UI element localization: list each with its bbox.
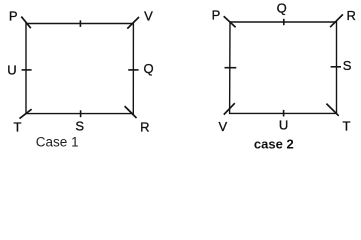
sq2 tick bottom (U) bbox=[283, 110, 285, 117]
svg-text:T: T bbox=[343, 119, 351, 134]
svg-text:P: P bbox=[9, 8, 18, 23]
sq1 corner mark V (top-right) bbox=[127, 17, 139, 29]
svg-text:R: R bbox=[347, 8, 356, 23]
sq2 corner mark V (bottom-left) bbox=[224, 103, 235, 114]
svg-text:U: U bbox=[279, 118, 288, 133]
sq1 corner mark P (top-left) bbox=[21, 17, 31, 29]
square 2 outline bbox=[230, 22, 337, 113]
sq1 tick bottom (S) bbox=[80, 110, 82, 117]
svg-text:case 2: case 2 bbox=[254, 137, 294, 152]
square 1 outline bbox=[26, 24, 133, 114]
sq2 tick top (Q) bbox=[283, 19, 285, 25]
svg-text:Q: Q bbox=[144, 61, 154, 76]
svg-text:V: V bbox=[144, 9, 153, 24]
sq1 corner mark R (bottom-right) bbox=[125, 106, 137, 118]
sq2 corner mark P (top-left) bbox=[224, 16, 236, 27]
sq2 tick right (S) bbox=[331, 66, 341, 68]
sq1 tick top bbox=[79, 20, 81, 27]
svg-text:P: P bbox=[212, 7, 221, 22]
svg-text:V: V bbox=[218, 119, 227, 134]
svg-text:Case 1: Case 1 bbox=[36, 135, 79, 150]
sq2 tick left bbox=[225, 67, 237, 69]
svg-text:S: S bbox=[75, 119, 84, 134]
svg-text:T: T bbox=[14, 120, 22, 135]
sq1 tick right (Q) bbox=[128, 69, 138, 71]
sq2 corner mark R (top-right) bbox=[330, 14, 343, 27]
svg-text:R: R bbox=[140, 120, 149, 135]
sq1 tick left (U) bbox=[22, 69, 32, 71]
svg-text:U: U bbox=[7, 63, 16, 78]
svg-text:Q: Q bbox=[277, 1, 287, 16]
sq2 corner mark T (bottom-right) bbox=[326, 104, 338, 116]
svg-text:S: S bbox=[343, 58, 352, 73]
sq1 corner mark T (bottom-left) bbox=[20, 109, 32, 118]
